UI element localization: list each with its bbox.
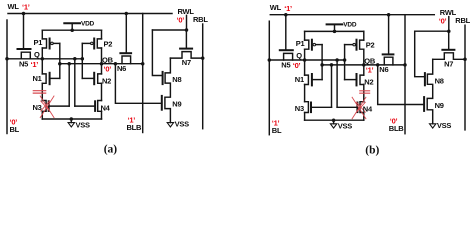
- ground VSS left: [333, 120, 335, 124]
- svg-text:N7: N7: [444, 59, 453, 68]
- wire P1-N1 common gate: [59, 43, 61, 78]
- power VDD symbol: [327, 23, 343, 25]
- svg-text:‘1’: ‘1’: [22, 3, 30, 12]
- svg-text:N4: N4: [363, 105, 373, 114]
- svg-text:VSS: VSS: [338, 122, 353, 131]
- wire N5 gate from WL: [285, 15, 287, 50]
- svg-text:WL: WL: [8, 2, 20, 11]
- transistor N5: [18, 48, 31, 50]
- wire N3 gate to QB rail: [68, 64, 70, 106]
- wire N5 gate from WL: [23, 14, 25, 49]
- wire VDD rail: [42, 29, 101, 31]
- svg-text:Q: Q: [34, 50, 40, 59]
- transistor N5: [280, 49, 293, 51]
- wire BLB vertical: [404, 15, 406, 134]
- svg-text:RBL: RBL: [455, 16, 470, 25]
- svg-text:‘0’: ‘0’: [293, 61, 301, 70]
- transistor N4: [98, 101, 102, 112]
- transistor N1: [305, 75, 309, 84]
- wire RWL horizontal: [153, 15, 187, 30]
- power VDD symbol: [64, 22, 80, 24]
- svg-text:WL: WL: [270, 3, 282, 12]
- svg-text:BL: BL: [272, 126, 282, 135]
- wire N6 gate from WL: [388, 15, 390, 55]
- junction dots: [268, 13, 467, 122]
- wire node QB rail: [60, 63, 143, 65]
- wire P2-N2 common gate: [344, 45, 346, 80]
- wire WL horizontal: [8, 13, 172, 15]
- svg-text:N5: N5: [281, 61, 290, 70]
- svg-text:P1: P1: [34, 38, 43, 47]
- wire P1-N1 common gate: [321, 45, 323, 80]
- svg-text:(b): (b): [365, 145, 379, 157]
- wire N9 gate from QB rail: [378, 65, 424, 105]
- transistor N6: [120, 52, 131, 54]
- wire VDD rail: [305, 30, 364, 32]
- wire WL horizontal: [270, 14, 434, 16]
- wire N6 gate from WL: [125, 14, 127, 54]
- wire N8 gate from RWL: [415, 31, 425, 76]
- svg-text:P1: P1: [296, 39, 305, 48]
- svg-text:BLB: BLB: [389, 124, 404, 133]
- wire N7 gate: [185, 30, 187, 48]
- svg-text:N5: N5: [19, 60, 28, 69]
- svg-text:N9: N9: [435, 101, 444, 110]
- svg-text:N1: N1: [295, 75, 304, 84]
- transistor N6: [383, 53, 394, 55]
- svg-text:N2: N2: [364, 78, 373, 87]
- svg-text:‘1’: ‘1’: [284, 4, 292, 13]
- wire node QB rail: [322, 64, 405, 66]
- wire N4 gate to Q rail: [74, 59, 76, 106]
- svg-text:N7: N7: [182, 58, 191, 67]
- svg-text:BLB: BLB: [127, 123, 142, 132]
- svg-text:VSS: VSS: [175, 120, 190, 129]
- wire node Q rail: [7, 58, 82, 60]
- wire node Q rail: [269, 59, 344, 61]
- wire N9 gate from QB rail: [115, 64, 161, 104]
- transistor P2: [360, 40, 364, 49]
- wire BL vertical: [6, 20, 8, 134]
- wire left inverter drain column: [304, 31, 306, 120]
- svg-text:P2: P2: [104, 40, 113, 49]
- defect open marks above N4: [360, 91, 370, 93]
- wire RWL horizontal: [415, 17, 449, 32]
- ground VSS right: [430, 124, 436, 128]
- svg-text:N4: N4: [101, 104, 111, 113]
- svg-text:N3: N3: [295, 104, 304, 113]
- wire right inverter drain column: [363, 31, 365, 120]
- svg-text:QB: QB: [364, 57, 376, 66]
- wire left inverter drain column: [41, 30, 43, 119]
- svg-text:N3: N3: [33, 103, 42, 112]
- ground VSS left: [70, 119, 72, 123]
- ground VSS right: [167, 123, 173, 127]
- svg-text:(a): (a): [104, 144, 118, 156]
- svg-text:VDD: VDD: [343, 22, 357, 29]
- wire N7 gate: [448, 31, 450, 49]
- wire right inverter drain column: [101, 30, 103, 119]
- svg-text:N6: N6: [117, 64, 126, 73]
- svg-text:BL: BL: [10, 125, 20, 134]
- wire N4 gate to Q rail: [336, 60, 338, 107]
- svg-text:N8: N8: [172, 75, 181, 84]
- junction dots: [5, 12, 204, 121]
- wire read stack column N8 N9: [427, 59, 433, 124]
- transistor N9: [423, 97, 425, 111]
- wire P2-N2 common gate: [81, 43, 83, 78]
- transistor N7: [180, 48, 192, 50]
- svg-text:QB: QB: [102, 56, 114, 65]
- svg-text:RBL: RBL: [193, 15, 208, 24]
- defect X on N3: [40, 96, 54, 118]
- transistor N3: [305, 102, 309, 113]
- wire BL vertical: [268, 21, 270, 135]
- wire VSS rail bottom: [42, 118, 101, 120]
- wire read stack column N8 N9: [165, 58, 171, 123]
- svg-text:N2: N2: [102, 77, 111, 86]
- wire N3 gate to QB rail: [331, 65, 333, 107]
- transistor N2: [98, 74, 102, 83]
- transistor N8: [162, 72, 164, 84]
- transistor N2: [360, 75, 364, 84]
- svg-text:N6: N6: [379, 65, 388, 74]
- transistor N4: [360, 102, 364, 113]
- wire BLB vertical: [142, 14, 144, 133]
- transistor N8: [424, 73, 426, 85]
- svg-text:‘0’: ‘0’: [439, 17, 447, 26]
- transistor N7: [442, 49, 454, 51]
- svg-text:N9: N9: [172, 100, 181, 109]
- svg-text:Q: Q: [296, 51, 302, 60]
- defect open marks above N3: [33, 91, 45, 93]
- defect X on N4: [352, 97, 366, 119]
- wire N8 gate from RWL: [152, 30, 162, 76]
- transistor P2: [97, 39, 101, 48]
- svg-text:‘1’: ‘1’: [31, 60, 39, 69]
- svg-text:‘1’: ‘1’: [366, 66, 374, 75]
- wire RBL vertical: [202, 24, 204, 129]
- wire RBL vertical: [464, 25, 466, 130]
- svg-text:‘0’: ‘0’: [177, 16, 185, 25]
- svg-text:‘0’: ‘0’: [104, 65, 112, 74]
- transistor P1: [305, 40, 309, 49]
- svg-text:N8: N8: [435, 76, 444, 85]
- svg-text:VDD: VDD: [81, 20, 95, 27]
- svg-text:N1: N1: [33, 74, 42, 83]
- svg-text:VSS: VSS: [76, 121, 91, 130]
- transistor N9: [161, 96, 163, 110]
- transistor N3: [42, 101, 46, 112]
- svg-text:VSS: VSS: [437, 121, 452, 130]
- svg-text:P2: P2: [366, 41, 375, 50]
- wire VSS rail bottom: [305, 119, 364, 121]
- transistor P1: [42, 39, 46, 48]
- transistor N1: [42, 74, 46, 83]
